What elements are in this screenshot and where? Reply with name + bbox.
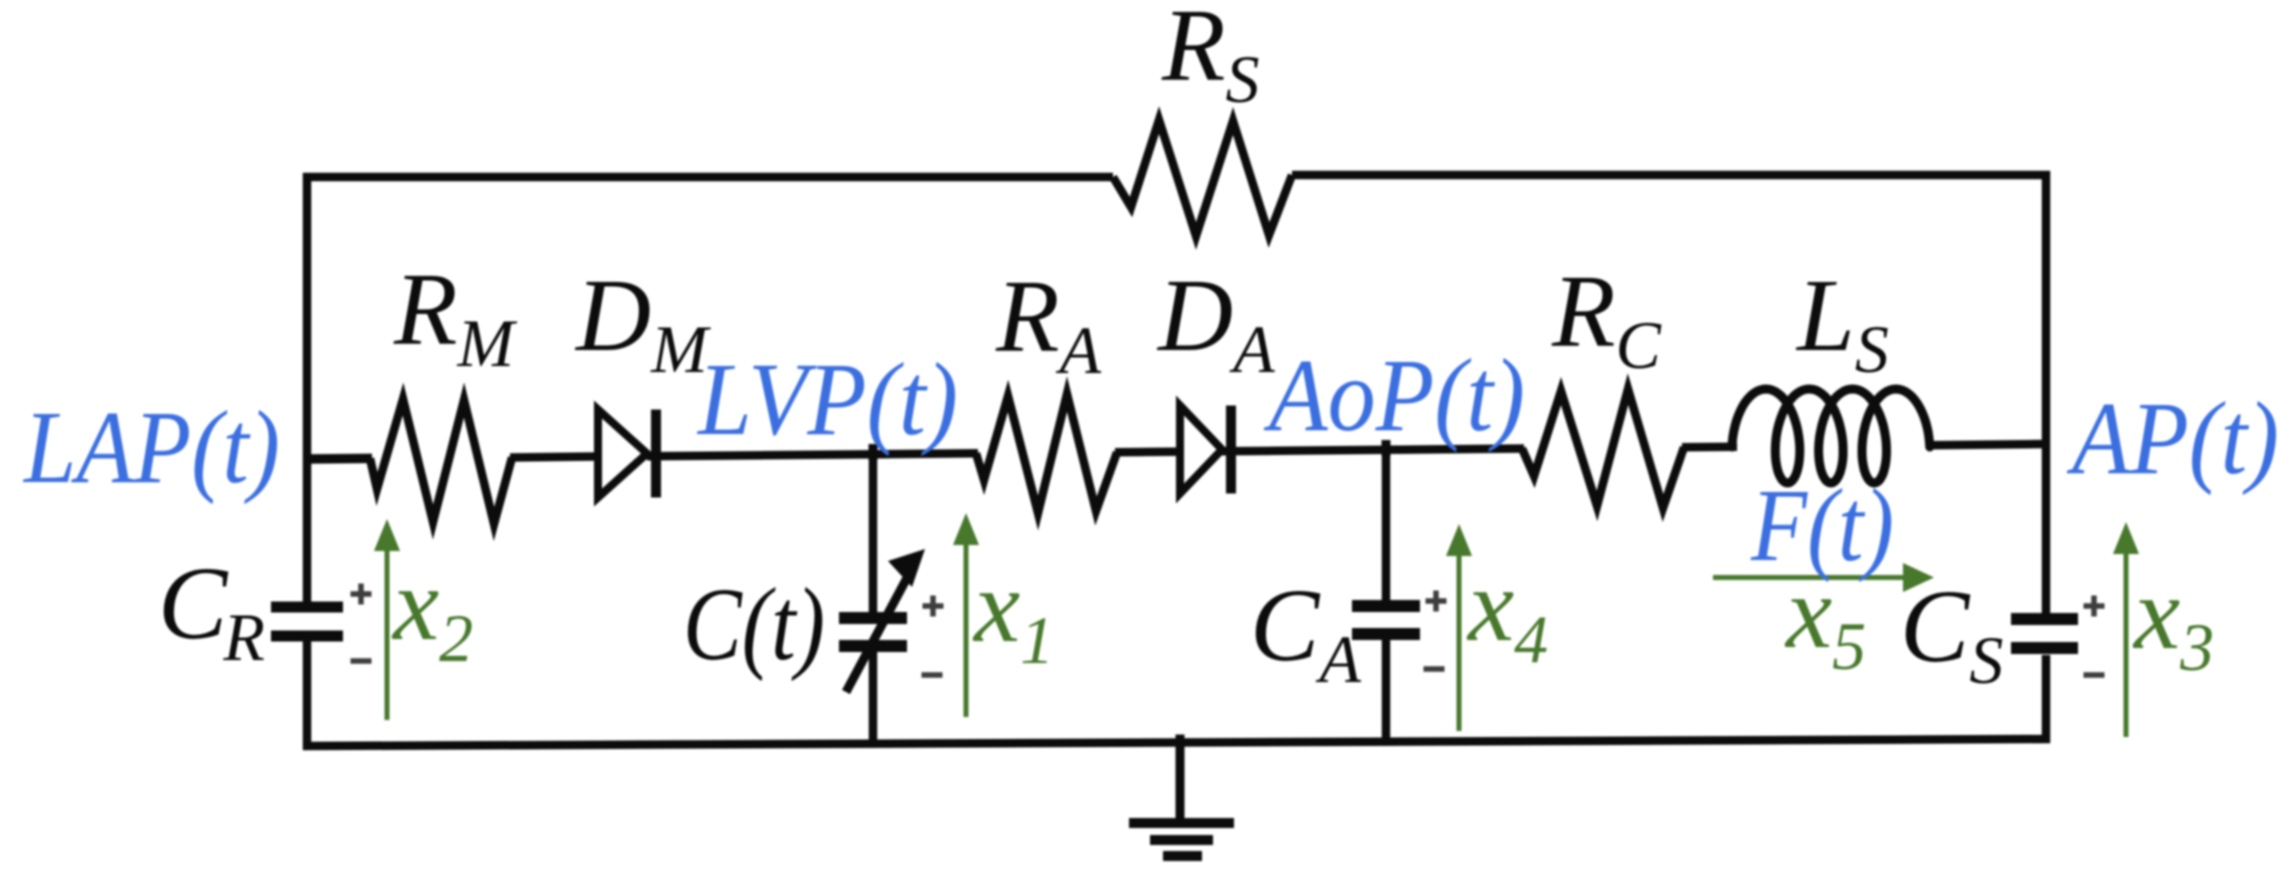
svg-text:DM: DM	[574, 258, 711, 387]
svg-text:RM: RM	[393, 252, 518, 381]
svg-text:CA: CA	[1250, 568, 1361, 697]
svg-text:DA: DA	[1156, 258, 1275, 387]
svg-text:RA: RA	[995, 259, 1102, 388]
svg-text:LS: LS	[1795, 258, 1889, 387]
svg-text:LVP(t): LVP(t)	[696, 342, 958, 457]
svg-text:x3: x3	[2132, 556, 2214, 685]
svg-text:CR: CR	[158, 546, 265, 675]
svg-text:C(t): C(t)	[683, 567, 825, 682]
svg-text:LAP(t): LAP(t)	[22, 390, 280, 505]
svg-text:RC: RC	[1551, 254, 1662, 383]
svg-text:RS: RS	[1161, 0, 1260, 117]
svg-text:x1: x1	[972, 549, 1054, 678]
svg-text:AP(t): AP(t)	[2066, 381, 2279, 496]
svg-text:AoP(t): AoP(t)	[1263, 338, 1525, 453]
svg-text:x4: x4	[1466, 548, 1548, 677]
svg-text:CS: CS	[1900, 569, 2003, 698]
svg-text:x2: x2	[391, 547, 473, 676]
